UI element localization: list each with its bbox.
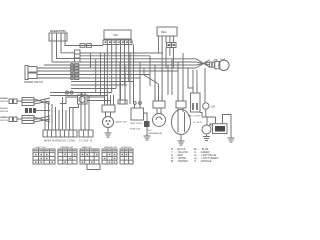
- bullet connectors column: [66, 64, 79, 95]
- svg-text:HEAD: HEAD: [214, 58, 219, 61]
- dimmer switch wires: [42, 68, 71, 78]
- table cell marks: [34, 150, 132, 163]
- svg-text:CDI: CDI: [113, 33, 118, 37]
- horn ground: [203, 134, 210, 141]
- CDI wires down: [107, 45, 128, 101]
- regulator pins: [159, 36, 174, 60]
- left harness bundle: [45, 97, 73, 130]
- turn signal connector row 3: [0, 116, 50, 124]
- svg-text:RR WINKER: RR WINKER: [0, 117, 8, 119]
- magneto connector: [176, 95, 186, 108]
- fuse ground: [144, 127, 151, 140]
- svg-text:REG: REG: [161, 30, 167, 34]
- regulator unit U2: [157, 27, 177, 36]
- CDI connector row: [103, 40, 132, 45]
- turn signal connector row 1: [0, 98, 50, 106]
- inline connector on black wire: [80, 44, 85, 48]
- switch table 5: [120, 147, 133, 164]
- relay K1: [60, 93, 111, 112]
- main switch SW1: [103, 112, 128, 128]
- svg-text:SWITCH: SWITCH: [0, 120, 8, 122]
- color legend: [171, 148, 219, 163]
- diagonal wire to magneto: [144, 75, 159, 84]
- strip connector J1: [43, 130, 77, 137]
- svg-text:CONN B: CONN B: [79, 140, 92, 143]
- CDI unit U1: [104, 30, 131, 39]
- headlight bulb: [214, 58, 230, 70]
- battery BT1: [131, 108, 144, 125]
- flywheel magneto: [172, 108, 191, 135]
- horn H1: [202, 124, 212, 135]
- svg-text:LIGHT: LIGHT: [221, 59, 227, 61]
- main wire bus horizontal: [44, 53, 196, 96]
- alternator connector: [153, 95, 165, 108]
- engine stop switch connector: [49, 33, 67, 41]
- taillight wires: [188, 70, 202, 118]
- svg-text:DIMMER SWITCH: DIMMER SWITCH: [24, 82, 43, 84]
- svg-text:15A: 15A: [211, 106, 216, 109]
- switch table 4: [102, 147, 118, 164]
- fuse F1: [130, 113, 150, 131]
- strip connector J2: [79, 130, 93, 137]
- ignition coil T1: [213, 115, 232, 139]
- switch table 1: [33, 147, 55, 164]
- strip J2 wires: [81, 92, 89, 130]
- svg-text:Br ···· BROWN: Br ···· BROWN: [171, 160, 188, 163]
- headlight harness crossing: [196, 59, 210, 68]
- battery wires: [118, 62, 141, 108]
- svg-text:WIRE HARNESS CONN: WIRE HARNESS CONN: [44, 140, 75, 143]
- svg-text:MAIN SW: MAIN SW: [116, 121, 128, 124]
- svg-text:BATTERY: BATTERY: [131, 122, 144, 125]
- svg-text:FUSE 15A: FUSE 15A: [130, 128, 141, 131]
- regulator connector pair: [167, 43, 177, 48]
- dimmer switch block: [25, 66, 42, 80]
- switch table 3: [80, 146, 100, 170]
- svg-text:O ···· ORANGE: O ···· ORANGE: [194, 160, 212, 163]
- svg-text:BRAKE: BRAKE: [0, 107, 9, 110]
- regulator wires lower: [166, 48, 173, 69]
- alternator G1: [148, 108, 166, 135]
- svg-text:ENGINE STOP SW: ENGINE STOP SW: [50, 29, 67, 33]
- switch table 2: [58, 147, 77, 164]
- svg-text:HORN: HORN: [194, 122, 202, 124]
- svg-text:FR WINKER: FR WINKER: [0, 98, 8, 100]
- svg-text:TAILLIGHT: TAILLIGHT: [188, 115, 202, 118]
- svg-text:A.C.: A.C.: [148, 129, 153, 132]
- vertical harness drops: [91, 45, 194, 109]
- svg-text:GENERATOR: GENERATOR: [148, 132, 162, 135]
- brake switch row 2: [0, 107, 50, 113]
- headlight connectors: [210, 62, 220, 69]
- main switch connector: [102, 95, 115, 112]
- wire harness from stop switch: [52, 41, 103, 62]
- horn wiring: [200, 113, 216, 126]
- fuse F2: [194, 68, 216, 124]
- connector strip B: [75, 50, 81, 62]
- coil ground: [228, 138, 235, 142]
- magneto ground: [178, 135, 185, 146]
- svg-text:SWITCH: SWITCH: [0, 101, 8, 103]
- main switch ground: [105, 128, 112, 138]
- svg-text:SWITCH: SWITCH: [0, 111, 8, 113]
